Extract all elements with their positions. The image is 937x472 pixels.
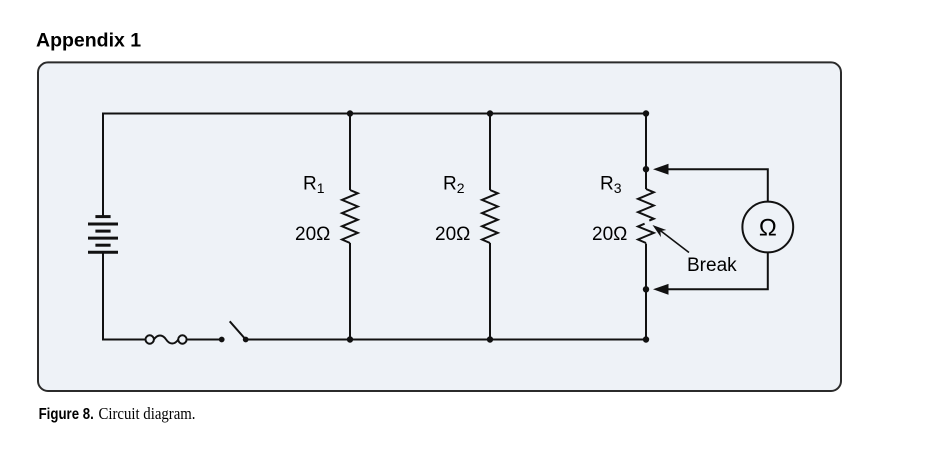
break callout arrowhead (653, 225, 667, 237)
wire: R2 branch bottom (489, 243, 491, 340)
svg-text:Appendix 1: Appendix 1 (36, 30, 141, 52)
wire: battery bottom to bottom-left corner to fuse (103, 252, 146, 339)
svg-text:20Ω: 20Ω (295, 224, 330, 245)
wire: R1 branch top (349, 114, 351, 191)
wire: R3 branch bottom (645, 244, 647, 340)
wire: switch pivot to bottom-right corner (246, 339, 646, 341)
ohmmeter bottom lead arrowhead (653, 284, 669, 295)
junction dot ohmmeter bottom lead (643, 286, 649, 292)
junction dot top R3 corner (643, 110, 649, 116)
svg-text:20Ω: 20Ω (435, 224, 470, 245)
svg-text:Ω: Ω (759, 215, 777, 242)
junction dot ohmmeter top lead (643, 166, 649, 172)
ohmmeter top lead arrowhead (653, 164, 669, 175)
ohmmeter top lead wire (667, 169, 768, 201)
svg-text:20Ω: 20Ω (592, 224, 627, 245)
junction dot bottom R1 (347, 336, 353, 342)
wire: R3 branch top (645, 114, 647, 190)
ohmmeter M1 (742, 202, 793, 253)
junction dot top R2 (487, 110, 493, 116)
junction dot bottom R3 corner (643, 336, 649, 342)
svg-text:Circuit diagram.: Circuit diagram. (99, 404, 196, 423)
wire: R2 branch top (489, 114, 491, 191)
wire: fuse to switch contact (187, 339, 222, 341)
fuse F1 (146, 335, 187, 343)
battery B1 (88, 217, 118, 253)
svg-text:Break: Break (687, 255, 737, 276)
resistor R3 zigzag (broken) lower part (638, 224, 654, 243)
junction dot top R1 (347, 110, 353, 116)
figure panel box (38, 62, 841, 391)
switch S1 (open) (219, 321, 249, 342)
resistor R1 zigzag (342, 190, 358, 243)
ohmmeter bottom lead wire (667, 252, 768, 289)
resistor R3 zigzag (broken) upper part (638, 189, 654, 221)
junction dot bottom R2 (487, 336, 493, 342)
break callout arrow line (657, 228, 689, 253)
svg-text:Figure 8.: Figure 8. (39, 406, 94, 423)
resistor R2 zigzag (482, 190, 498, 243)
wire: top bus from left corner to R3 corner (103, 114, 646, 217)
wire: R1 branch bottom (349, 243, 351, 340)
